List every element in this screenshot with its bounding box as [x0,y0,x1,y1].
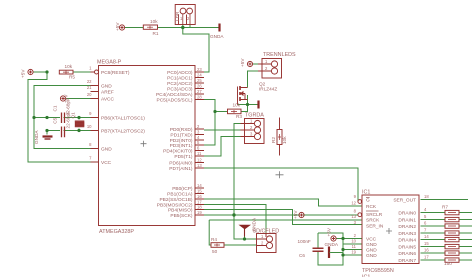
svg-text:DRAIN3: DRAIN3 [398,231,416,237]
svg-text:PC0(ADC0): PC0(ADC0) [167,70,193,76]
svg-text:10k: 10k [282,136,287,144]
svg-text:22: 22 [87,79,92,84]
svg-text:Q1: Q1 [70,112,75,119]
svg-text:26: 26 [197,83,202,88]
svg-text:DRAIN2: DRAIN2 [398,224,416,230]
svg-text:GND: GND [101,146,112,152]
svg-text:DRAIN0: DRAIN0 [398,210,416,216]
svg-text:PB4(MISO): PB4(MISO) [168,207,193,213]
svg-text:VCC: VCC [366,236,377,242]
svg-text:GNDA: GNDA [252,217,257,231]
svg-text:PC3(ADC3): PC3(ADC3) [167,86,193,92]
svg-text:TPIC6B595N: TPIC6B595N [362,268,394,274]
svg-text:28: 28 [197,94,202,99]
svg-text:10k: 10k [150,19,158,24]
svg-text:PB0(ICP): PB0(ICP) [172,186,193,192]
svg-text:GND: GND [101,83,112,89]
svg-text:15: 15 [424,241,429,246]
svg-text:27: 27 [197,89,202,94]
svg-text:G: G [366,198,370,204]
svg-text:SRCK: SRCK [366,217,380,223]
svg-text:11: 11 [197,151,202,156]
svg-text:14: 14 [424,234,429,239]
svg-text:R5: R5 [69,75,75,80]
svg-text:11: 11 [352,244,357,249]
svg-text:PB2(SS/OC1B): PB2(SS/OC1B) [159,197,192,203]
svg-text:24: 24 [197,72,202,77]
svg-text:PC2(ADC2): PC2(ADC2) [167,81,193,87]
svg-text:TGRDA: TGRDA [245,113,264,119]
svg-text:10k: 10k [233,103,241,108]
svg-text:+5V: +5V [115,22,120,31]
svg-text:R1: R1 [153,31,159,36]
svg-text:VCC: VCC [101,160,112,166]
svg-text:PB6(XTAL1/TOSC1): PB6(XTAL1/TOSC1) [101,115,145,121]
svg-text:DRAIN6: DRAIN6 [398,251,416,257]
svg-text:13: 13 [197,163,202,168]
svg-text:GND: GND [366,242,377,248]
svg-text:10: 10 [351,239,356,244]
svg-text:100nF: 100nF [298,239,311,244]
svg-text:13: 13 [351,214,356,219]
svg-text:17: 17 [424,255,429,260]
svg-text:PC1(ADC1): PC1(ADC1) [167,75,193,81]
svg-text:R3: R3 [236,114,242,119]
svg-text:21: 21 [87,85,92,90]
svg-text:PC4(ADC4/SDA): PC4(ADC4/SDA) [156,92,193,98]
svg-text:PD1(TXD): PD1(TXD) [170,132,193,138]
svg-text:R4: R4 [211,237,217,242]
svg-text:16: 16 [424,248,429,253]
svg-text:25: 25 [197,78,202,83]
svg-text:TRENNLEDS: TRENNLEDS [263,52,296,58]
svg-text:PC6(RESET): PC6(RESET) [101,70,130,76]
svg-text:18: 18 [424,194,429,199]
svg-text:12: 12 [197,157,202,162]
svg-text:23: 23 [197,67,202,72]
svg-text:DRAIN4: DRAIN4 [398,237,416,243]
svg-text:+5V: +5V [240,58,245,67]
svg-text:12: 12 [351,201,356,206]
svg-text:PD3(INT1): PD3(INT1) [170,143,193,149]
svg-text:DRAIN1: DRAIN1 [398,217,416,223]
svg-text:R2: R2 [271,137,276,143]
svg-text:ATMEGA328P: ATMEGA328P [99,229,134,235]
svg-text:PD5(T1): PD5(T1) [174,154,193,160]
svg-text:PB1(OC1A): PB1(OC1A) [167,191,193,197]
svg-text:MEGA8-P: MEGA8-P [97,60,122,66]
svg-text:GND: GND [366,253,377,259]
svg-text:PC5(ADC5/SCL): PC5(ADC5/SCL) [157,97,193,103]
svg-text:C1: C1 [53,105,58,111]
svg-text:+5V: +5V [21,69,26,78]
svg-text:PD0(RXD): PD0(RXD) [170,127,193,133]
svg-text:+5V: +5V [293,210,298,219]
svg-text:+5V: +5V [327,227,332,236]
svg-text:18: 18 [197,204,202,209]
svg-text:10: 10 [87,124,92,129]
svg-text:10k: 10k [65,64,73,69]
svg-text:14: 14 [197,183,202,188]
svg-text:C5: C5 [53,117,58,123]
svg-text:IRLZ44Z: IRLZ44Z [259,87,277,92]
svg-text:RCK: RCK [366,204,377,210]
svg-text:GND: GND [366,247,377,253]
svg-text:PD7(AIN1): PD7(AIN1) [169,166,193,172]
svg-text:PD4(XCK/T0): PD4(XCK/T0) [163,148,193,154]
svg-text:19: 19 [197,210,202,215]
svg-text:DRAIN7: DRAIN7 [398,258,416,264]
svg-text:PB5(SCK): PB5(SCK) [170,213,193,219]
svg-text:C6: C6 [299,253,305,258]
svg-text:GNDA: GNDA [325,242,339,247]
svg-text:IC1: IC1 [362,190,370,196]
svg-text:SRCLR: SRCLR [366,212,383,218]
svg-text:20: 20 [87,92,92,97]
svg-text:SER_OUT: SER_OUT [393,198,416,204]
svg-text:15: 15 [197,188,202,193]
svg-text:PB7(XTAL2/TOSC2): PB7(XTAL2/TOSC2) [101,128,145,134]
svg-text:AREF: AREF [101,89,114,95]
svg-text:GNDA: GNDA [210,34,224,39]
svg-text:R7: R7 [442,205,448,210]
svg-text:GNDA: GNDA [34,130,39,144]
svg-text:SER_IN: SER_IN [366,223,384,229]
svg-text:50: 50 [212,249,218,254]
svg-text:16: 16 [197,194,202,199]
svg-text:19: 19 [351,250,356,255]
svg-text:AVCC: AVCC [101,96,115,102]
svg-text:PD6(AIN0): PD6(AIN0) [169,160,193,166]
svg-text:DRAIN5: DRAIN5 [398,244,416,250]
svg-text:150: 150 [444,261,452,266]
svg-text:SD/CFLED: SD/CFLED [253,229,280,235]
